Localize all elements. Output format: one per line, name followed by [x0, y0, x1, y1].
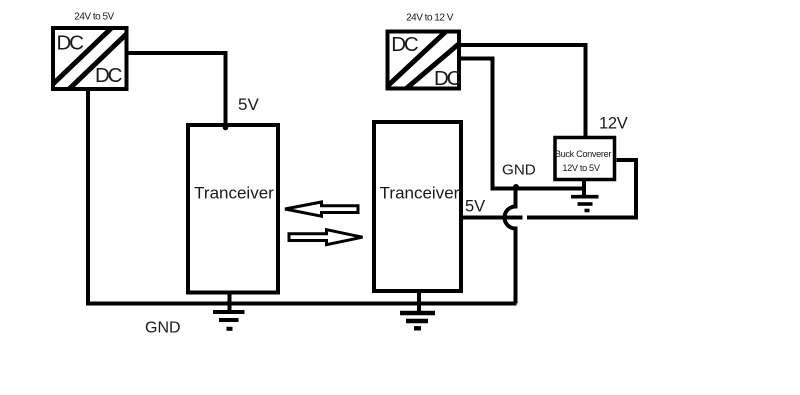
U1 diagonal 2	[66, 33, 128, 92]
DC/DC converter U1 (24V to 5V) box	[53, 28, 127, 89]
svg-text:24V to 5V: 24V to 5V	[74, 12, 114, 23]
wire: buck 5V output right, down, and left to right transceiver	[527, 160, 636, 218]
right transceiver box	[374, 122, 461, 291]
wire: U1 output 5V to left transceiver top	[126, 53, 226, 128]
wire: buck ground stub	[582, 181, 586, 196]
U2 diagonal 1	[387, 30, 448, 87]
left transceiver box	[188, 125, 278, 293]
wire: 5V line left segment into right transceiver	[461, 216, 523, 220]
U1 diagonal 1	[53, 28, 112, 85]
svg-text:Tranceiver: Tranceiver	[194, 184, 274, 203]
node: 5V wire joins transceiver	[223, 125, 229, 131]
svg-text:DC: DC	[57, 31, 85, 54]
svg-text:Tranceiver: Tranceiver	[380, 184, 460, 203]
svg-text:DC: DC	[95, 64, 123, 87]
svg-text:GND: GND	[145, 320, 181, 337]
svg-text:DC: DC	[434, 67, 462, 90]
svg-text:24V to 12 V: 24V to 12 V	[406, 13, 454, 24]
arrow right (data direction)	[289, 230, 363, 245]
arrow left (data direction)	[285, 202, 358, 216]
DC/DC converter U2 (24V to 12V) box	[388, 32, 460, 89]
wire: U1 bottom GND down and along bottom bus	[88, 89, 517, 304]
svg-text:5V: 5V	[465, 198, 485, 216]
wire: right transceiver ground stub	[417, 291, 421, 311]
ground symbol (right transceiver)	[400, 313, 435, 328]
svg-text:GND: GND	[502, 162, 536, 179]
wire: left transceiver ground stub	[228, 293, 232, 311]
wire: U2 GND output down and right to buck ground	[459, 59, 584, 189]
U2 diagonal 2	[401, 42, 461, 93]
svg-text:12V to 5V: 12V to 5V	[562, 163, 600, 173]
node: GND junction at hop branch	[513, 184, 519, 190]
svg-text:5V: 5V	[238, 95, 259, 114]
ground symbol (left transceiver)	[213, 312, 245, 329]
svg-text:12V: 12V	[599, 115, 628, 133]
wire: GND branch with hop over 5V line, down to bottom bus	[505, 189, 516, 304]
svg-text:Buck Converer: Buck Converer	[555, 149, 612, 159]
ground symbol (buck converter)	[571, 197, 599, 211]
buck converter box	[555, 138, 615, 180]
wire: U2 12V output to buck converter top	[459, 45, 586, 137]
svg-text:DC: DC	[391, 33, 419, 56]
